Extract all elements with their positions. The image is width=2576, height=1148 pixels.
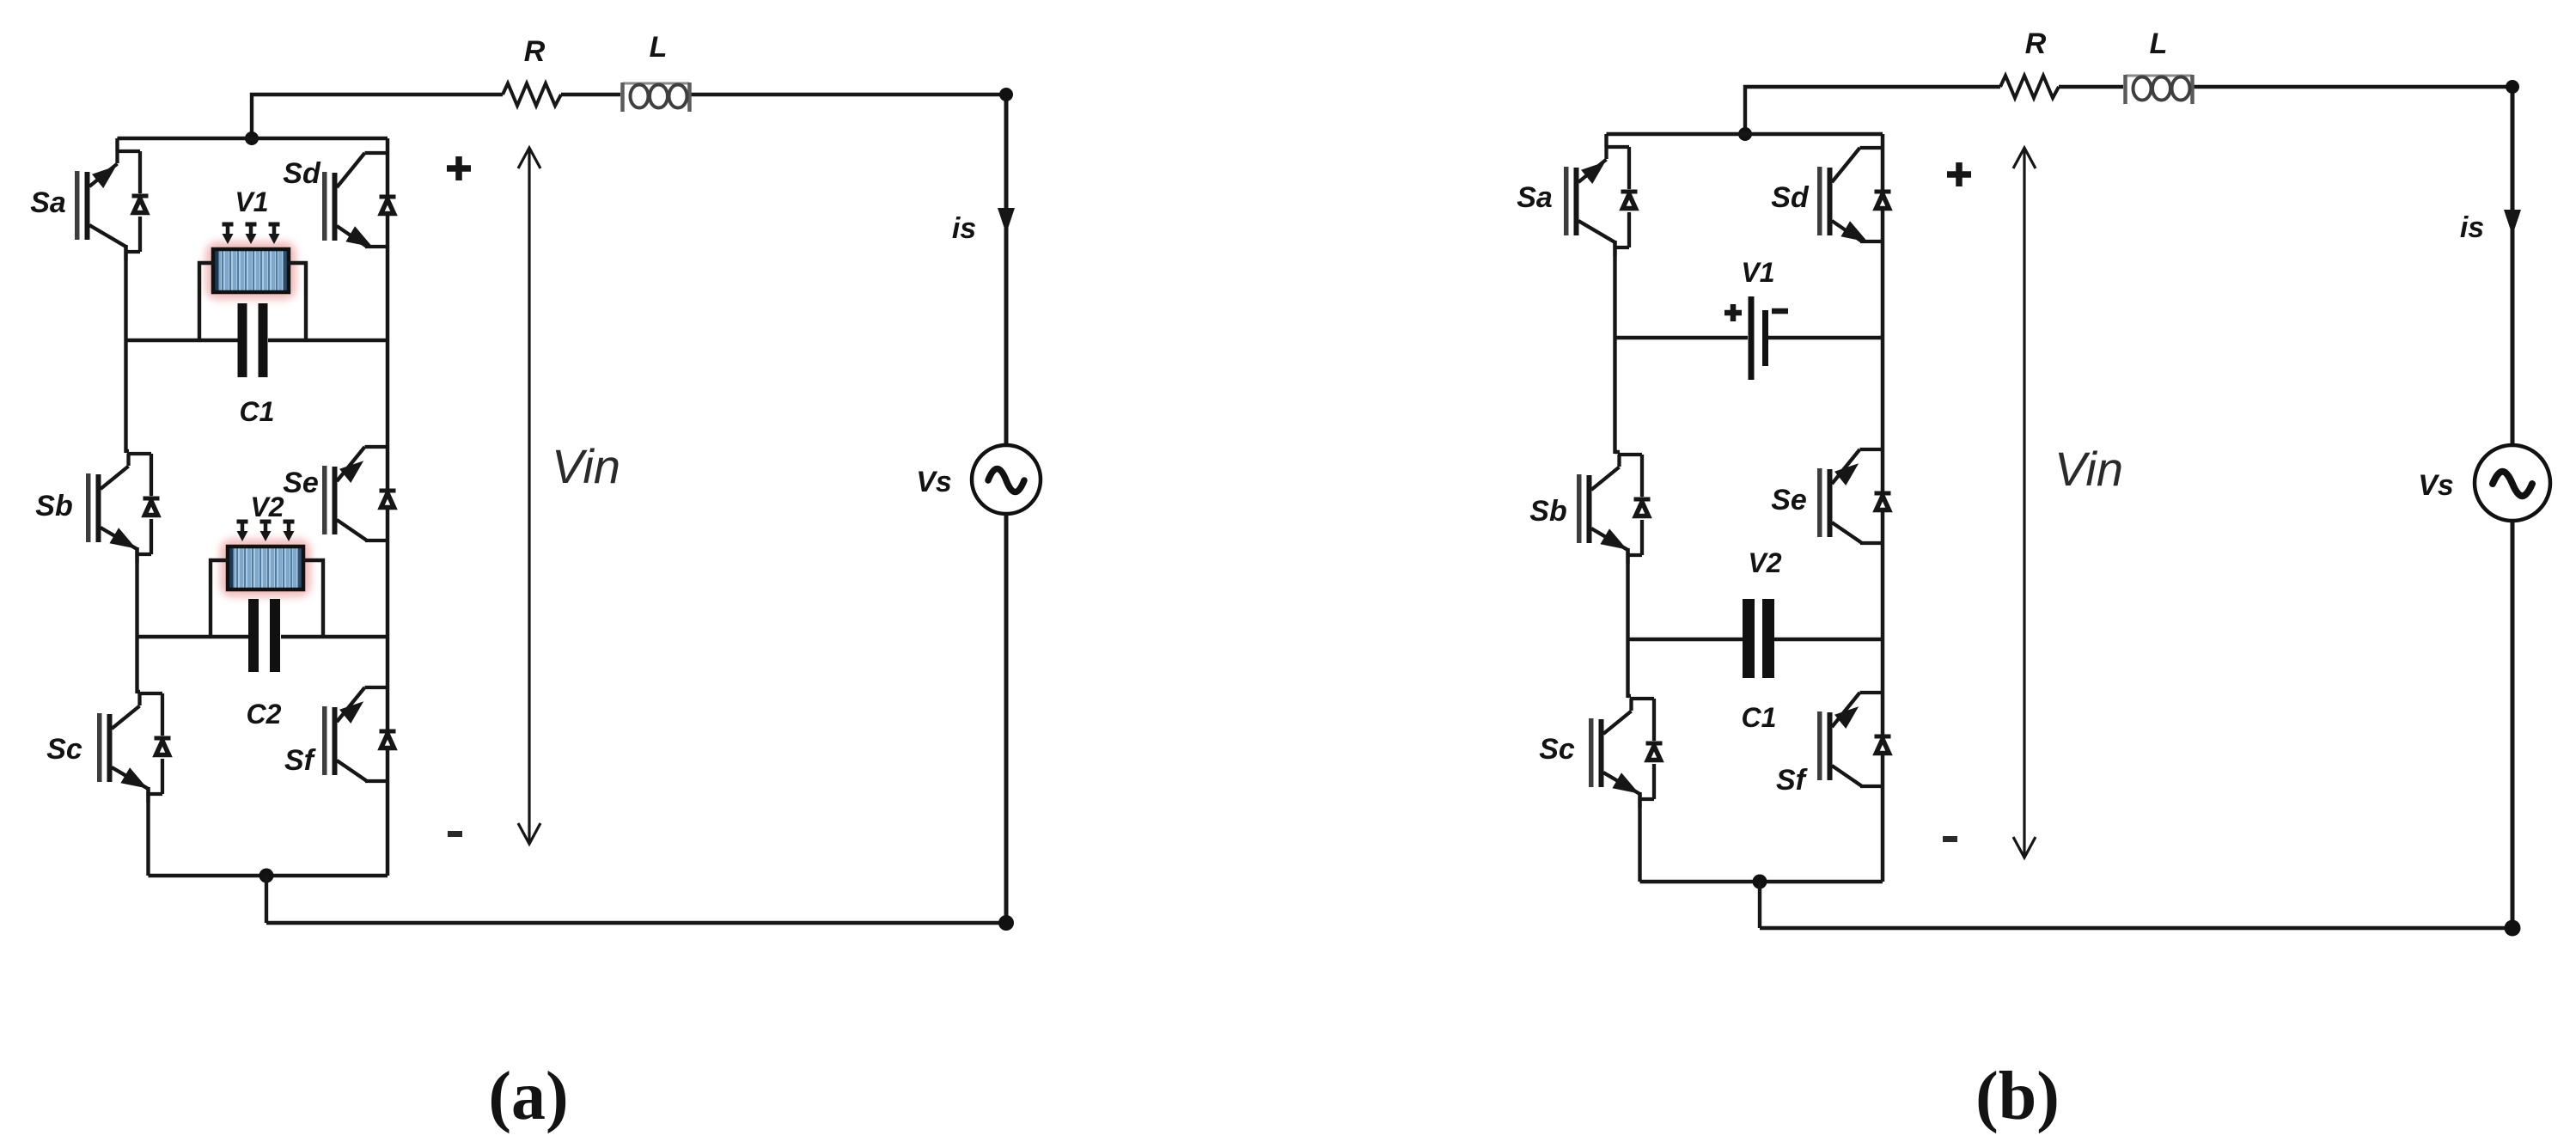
wire: outer bottom rail	[266, 921, 1006, 925]
wire: rail 2 left segment	[1628, 638, 1744, 641]
wire: rail 1 left segment	[126, 339, 239, 343]
wire: left leg Sb emitter to Sc	[137, 547, 141, 693]
node: bottom junction dot	[259, 869, 274, 883]
wire: right outer leg bottom	[2511, 521, 2515, 928]
svg-text:C2: C2	[247, 699, 282, 730]
transistor Sd	[322, 153, 396, 247]
svg-text:Sc: Sc	[46, 733, 82, 766]
label minus Vin	[448, 831, 462, 837]
wire: bridge bottom rail	[149, 874, 388, 878]
svg-text:C1: C1	[1742, 702, 1777, 733]
wire: V1 right lead	[287, 263, 306, 340]
svg-text:L: L	[2150, 27, 2168, 60]
source Vs circle	[972, 445, 1041, 514]
svg-text:Sf: Sf	[1776, 764, 1809, 797]
svg-text:C1: C1	[240, 396, 275, 427]
transistor Sa	[1564, 147, 1638, 256]
transistor Sc	[97, 693, 171, 803]
node: junction dot top of bridge	[1738, 127, 1752, 141]
node: top right dot	[999, 88, 1013, 101]
svg-text:Sa: Sa	[1517, 181, 1553, 214]
arrow Vin double headed	[2013, 148, 2036, 858]
transistor Sf	[1817, 693, 1891, 786]
inductor L	[623, 82, 690, 112]
transistor Se	[1817, 449, 1891, 543]
label plus Vin	[1947, 162, 1971, 186]
svg-text:is: is	[952, 212, 976, 245]
arrow is current	[998, 208, 1015, 234]
wire: outer bottom rail	[1760, 926, 2512, 930]
wire: left leg Sa emitter to Sb	[126, 245, 130, 453]
svg-text:V2: V2	[250, 492, 284, 522]
node: bottom right dot	[2505, 920, 2521, 937]
wire: left leg Sc emitter to bottom rail	[1638, 792, 1641, 882]
transistor Sa	[75, 151, 149, 260]
svg-text:R: R	[2025, 27, 2047, 60]
svg-text:Sb: Sb	[1529, 495, 1566, 528]
node: bottom right dot	[998, 915, 1014, 931]
capacitor C1 plates	[1743, 599, 1774, 678]
label minus Vin	[1943, 836, 1957, 842]
wire: right leg of bridge	[1881, 134, 1885, 882]
inductor L	[2126, 75, 2193, 104]
svg-text:V2: V2	[1748, 547, 1781, 578]
wire: right outer leg top	[1004, 95, 1009, 445]
battery V1 long plate	[1749, 296, 1755, 380]
svg-text:(b): (b)	[1975, 1059, 2060, 1134]
wire: from L to top-right corner	[2194, 85, 2512, 89]
wire: right outer leg top	[2511, 87, 2515, 445]
source Vs circle	[2475, 445, 2550, 521]
svg-text:Sa: Sa	[30, 186, 66, 219]
svg-text:Vs: Vs	[916, 466, 952, 498]
svg-text:Vin: Vin	[552, 439, 620, 493]
wire: bridge bottom rail	[1640, 880, 1883, 884]
label plus Vin	[447, 156, 471, 180]
svg-text:V1: V1	[235, 186, 268, 217]
capacitor C2 plates	[248, 599, 280, 672]
svg-text:(a): (a)	[488, 1059, 568, 1134]
svg-text:Se: Se	[1771, 484, 1807, 516]
wire: rail 2 right segment	[281, 635, 388, 639]
arrow Vin double headed	[518, 148, 540, 844]
svg-text:L: L	[650, 31, 668, 64]
pv source V2	[220, 539, 311, 597]
pv source V1	[205, 241, 296, 300]
svg-text:Sc: Sc	[1539, 733, 1575, 766]
wire: between R and L	[561, 93, 620, 96]
capacitor C1 plates	[238, 303, 268, 377]
battery V1 short plate	[1762, 310, 1768, 366]
wire: rail 1 right segment	[1767, 336, 1883, 339]
svg-text:Sb: Sb	[35, 490, 72, 522]
wire: rail 1 right segment	[268, 339, 388, 343]
wire: right leg of bridge	[386, 138, 390, 876]
irradiance arrows V1	[223, 224, 280, 244]
svg-text:R: R	[524, 35, 546, 68]
svg-text:V1: V1	[1741, 257, 1774, 288]
wire: left leg Sa emitter to Sb	[1615, 241, 1621, 454]
svg-text:Vs: Vs	[2418, 469, 2454, 502]
transistor Sd	[1817, 148, 1891, 241]
wire: left leg Sc emitter to bottom rail	[146, 787, 150, 876]
wire: V1 left lead	[199, 263, 215, 340]
transistor Se	[322, 447, 396, 540]
svg-text:Sd: Sd	[283, 157, 321, 190]
wire: stub to outer bottom rail	[265, 876, 268, 923]
wire: between R and L	[2059, 85, 2123, 89]
resistor R	[2000, 76, 2059, 98]
transistor Sb	[1577, 455, 1651, 564]
wire: rail 2 left segment	[137, 635, 249, 639]
arrow is current	[2504, 210, 2521, 235]
node: top right dot	[2506, 80, 2519, 94]
wire: V2 left lead	[211, 560, 229, 637]
transistor Sc	[1589, 699, 1663, 808]
wire: top output wire with stub	[252, 95, 503, 138]
node: bottom junction dot	[1753, 875, 1767, 889]
svg-text:Sd: Sd	[1771, 181, 1810, 214]
irradiance arrows V2	[237, 522, 295, 541]
resistor R	[503, 83, 561, 106]
label battery minus	[1772, 308, 1788, 314]
wire: top output wire with stub	[1745, 87, 2000, 134]
wire: left leg Sa collector feed	[1604, 134, 1608, 147]
wire: rail 2 right segment	[1773, 638, 1883, 641]
wire: rail 1 left segment	[1615, 336, 1749, 339]
svg-text:Vin: Vin	[2054, 442, 2123, 496]
wire: stub to outer bottom rail	[1758, 882, 1761, 928]
transistor Sf	[322, 687, 396, 781]
wire: bridge top rail	[1607, 132, 1883, 136]
label battery plus	[1724, 304, 1742, 321]
wire: left leg Sa collector feed	[115, 138, 119, 151]
wire: right outer leg bottom	[1004, 514, 1009, 923]
wire: from L to top-right corner	[691, 93, 1006, 96]
svg-text:Sf: Sf	[284, 744, 317, 777]
svg-text:Se: Se	[283, 467, 319, 499]
wire: V2 right lead	[303, 560, 323, 637]
transistor Sb	[86, 454, 160, 563]
wire: bridge top rail	[118, 137, 388, 140]
wire: left leg Sb emitter to Sc	[1628, 548, 1632, 698]
node: junction dot top of bridge	[245, 131, 259, 145]
svg-text:is: is	[2460, 211, 2484, 244]
